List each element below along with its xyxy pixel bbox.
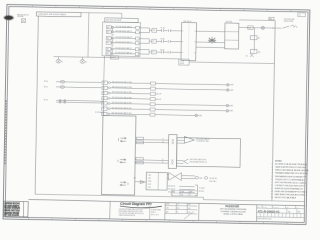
drain wires to bracket [179,186,195,192]
note item 3 [271,169,308,173]
svg-text:4 GN: 4 GN [148,184,151,186]
relay contact row K3 [106,36,149,41]
svg-text:2B4: 2B4 [102,103,105,105]
terminal strip wire id labels [162,139,164,164]
svg-text:X10: X10 [152,30,155,32]
drawing title text [220,205,248,216]
JB1 terminal list text [148,175,152,189]
number block row lines [257,208,305,218]
note item 9 [271,187,303,191]
shield node destination text [209,178,218,183]
svg-text:2 BK: 2 BK [148,178,151,180]
svg-text:U1 436 45008: U1 436 45008 [95,112,105,114]
company logo Circuit Diagram PPI [120,202,162,208]
harness wire row W25 [102,101,234,107]
cable bundle star symbol [208,37,216,44]
svg-text:1N4: 1N4 [258,52,261,54]
company address text [119,208,144,217]
shield node 500 label [195,176,208,180]
wire label boxes lower [136,157,144,164]
title block left divider [109,201,111,219]
TB1 terminal ticks [181,31,196,53]
svg-text:Z4: Z4 [299,15,301,17]
svg-text:X11: X11 [152,41,155,43]
connector CN2 box [225,23,239,49]
twisted pair crossover symbol [167,172,181,180]
aux bus inline label box [110,56,118,60]
revision mini table above title block [171,190,197,196]
svg-text:500: 500 [199,178,202,180]
svg-text:SH: SH [296,207,298,209]
lamp assembly L2 [80,57,87,64]
lamp assembly L1 [56,57,63,64]
M1 lower arrow symbol [183,159,188,164]
svg-text:TO REMOTE PNL: TO REMOTE PNL [196,141,209,143]
svg-text:BUS E1: BUS E1 [199,191,204,193]
svg-text:SH 436 08: SH 436 08 [168,186,175,188]
svg-text:REL MOD 436 45008: REL MOD 436 45008 [106,20,121,22]
note item 7 [271,181,306,185]
power feed wire from CN2 [239,27,282,29]
svg-text:11: 11 [271,194,273,196]
svg-text:9 81: 9 81 [188,212,191,214]
inline label box on power wire [248,26,253,30]
harness wire row W21 [44,79,234,86]
pair 1 junction and terminal label box [149,28,161,33]
aux bus wire to right partition [189,62,274,64]
svg-text:PNL 436 4: PNL 436 4 [209,181,216,183]
svg-text:3 WH: 3 WH [148,181,152,183]
svg-text:PASSOVER: PASSOVER [225,205,239,208]
note item 10 [271,190,308,194]
svg-text:4K7: 4K7 [258,38,261,40]
terminal board TB1 [181,22,196,60]
svg-text:R1: R1 [298,211,300,213]
harness wire row W22 [44,84,234,91]
branch device box R1 [250,36,260,40]
junction box J1 on aux bus [179,59,189,65]
terminal strip TS1 [168,134,177,168]
svg-text:L1: L1 [61,61,63,63]
relay coil link K1-K2 [111,29,113,36]
title cell divider [198,203,200,220]
drawing number text [258,208,301,214]
zone tick marks on top border [32,5,290,12]
svg-text:DT108 81236: DT108 81236 [5,215,20,217]
svg-text:45008: 45008 [180,63,184,65]
zone tick marks on bottom border [29,217,287,224]
note item 6 [271,178,305,182]
svg-text:MICROFILM REC 436 45: MICROFILM REC 436 45 [257,218,272,220]
relay contact row K5 [106,47,149,52]
left bus wire vertical [87,13,90,57]
relay module outline box [102,22,141,57]
svg-text:JS: JS [177,204,179,206]
relay coil link K3-K4 [111,39,113,46]
wires U1 to terminal strip TS1 lower [135,160,168,163]
M1 lower channel label text [190,158,207,164]
approval stamp box [4,201,29,217]
top-left key symbol box [21,19,25,23]
drawing area bottom boundary line [35,194,305,201]
svg-text:TO GND: TO GND [199,188,205,190]
svg-text:SP: SP [159,94,161,96]
M1 input arrow symbol [184,136,194,143]
signature grid labels [166,204,191,214]
relay contact row K4 [106,40,149,45]
auxiliary bus wire [54,57,179,59]
top-right corner label box [269,17,274,20]
pair 1 inline contact S1 [168,29,181,32]
svg-text:471-R-55625-01: 471-R-55625-01 [258,209,280,213]
svg-text:5 SH: 5 SH [148,187,151,189]
note item 12 [271,196,296,199]
branch vertical from power wire [253,28,255,52]
supply terminus chevrons [283,25,298,29]
microfilm tick strip [260,213,301,218]
cable label box CPS4 BUT 436 45008 CABLE [36,12,81,17]
pair 3 junction and terminal label box [149,50,161,55]
relay module header box [105,18,139,23]
inline polarity symbol [140,180,144,183]
svg-text:TL: TL [177,212,179,214]
scale column divider [149,206,151,220]
harness wire row W27 [101,111,202,117]
svg-text:2B0: 2B0 [103,82,106,84]
wires TB1 to connector CN2 [196,31,225,48]
wire U1 to junction box JB1 [135,181,146,183]
svg-text:CPS4 BUT 436 45008 CABLE: CPS4 BUT 436 45008 CABLE [38,13,67,17]
svg-text:2B1: 2B1 [103,87,106,89]
title block top line [28,199,304,205]
note item 1 [272,163,308,167]
svg-text:CHK: CHK [166,208,169,210]
svg-text:L2: L2 [85,62,87,64]
svg-text:SH 500 GD: SH 500 GD [209,178,218,180]
branch end contact symbol [246,53,254,58]
scale and size text [151,208,161,216]
svg-text:BT 41: BT 41 [44,86,48,88]
note item 4 [271,172,308,176]
svg-text:SZ: SZ [257,206,259,208]
svg-text:FROM REMOTE PNL 02: FROM REMOTE PNL 02 [190,162,207,164]
supply terminus note text [284,18,295,23]
lamp symbol on power wire [261,26,264,29]
harness wire row W23 [102,91,161,96]
junction box JB1 [146,172,167,190]
wire from label box to relay module header [81,13,122,19]
svg-text:SHT 1 OF 1: SHT 1 OF 1 [151,214,159,216]
TS1 terminal crosses [171,139,174,164]
pair 2 inline fuse F2 [160,37,167,42]
svg-text:1 RD: 1 RD [148,175,151,177]
pair 2 junction and terminal label box [149,39,161,44]
left margin revision strip (sideways text) [5,100,6,165]
relay contact row K6 [106,51,149,56]
note item 11 [271,193,305,197]
U1 interface symbol group 2 [118,159,126,164]
svg-text:10: 10 [271,191,273,193]
wires into M1 arrow [177,140,184,143]
pair 1 inline fuse F1 [161,27,168,32]
JB1 drain wire list text [168,186,175,194]
svg-text:8 81: 8 81 [188,204,191,206]
pair 3 inline fuse F3 [160,48,167,53]
shielded pair stub wires [44,99,104,104]
svg-text:DWG NO: DWG NO [273,207,278,209]
U1 interface symbol group 1 [118,137,126,142]
main harness vertical bus [103,56,104,116]
svg-text:GS: GS [246,56,248,58]
svg-text:12: 12 [271,197,273,199]
note item 8 [271,184,304,188]
relay contact row K1 [106,25,149,30]
signature grid void slash [184,211,194,219]
U1 interface symbol group 3 [120,181,128,186]
note item 5 [271,175,306,179]
binder punch hole [3,15,14,21]
control unit U1 box [102,115,136,195]
wires into M1 lower [176,161,183,164]
svg-text:X12: X12 [152,52,155,54]
svg-text:Circuit Diagram PPI: Circuit Diagram PPI [120,202,151,207]
relay contact row K2 [106,30,149,35]
svg-text:510: 510 [133,178,136,180]
svg-text:W12: W12 [248,27,251,29]
note item 2 [272,166,307,170]
wires crossover to shield node [182,176,195,179]
M1 upper channel label text [196,137,210,143]
pair 3 inline contact S3 [168,51,181,54]
svg-text:NOTES: NOTES [275,161,282,163]
number block divider [255,205,257,222]
relay coil link K5-K6 [111,50,113,52]
svg-text:BT 40: BT 40 [44,81,48,83]
svg-text:SP: SP [159,99,161,101]
wire label boxes upper [136,137,144,144]
svg-text:DWN: DWN [166,204,169,206]
svg-text:2B3: 2B3 [102,98,105,100]
bracket destination text [199,188,205,193]
sheet corner zone box [298,13,306,17]
output module M1 box [176,138,240,168]
partition vertical line from label box [35,16,38,194]
harness wire row W24 [102,96,161,101]
approval stamp dense text [4,201,23,217]
svg-text:8 81: 8 81 [181,194,184,196]
right column partition vertical [272,21,275,201]
harness wire row W26 [102,106,234,112]
svg-text:45 BUS FEED: 45 BUS FEED [284,21,295,23]
wires U1 to terminal strip TS1 upper [135,140,168,143]
pair 2 inline contact S2 [168,40,181,43]
svg-text:J1 436: J1 436 [180,60,184,62]
svg-text:2B5: 2B5 [102,108,105,110]
svg-text:01: 01 [288,211,290,213]
number block header cells [257,205,298,209]
signature grid [165,203,197,221]
top-right region boundary line [239,19,275,22]
svg-text:REV: REV [172,191,175,193]
svg-text:8 81: 8 81 [188,208,191,210]
svg-text:2B2: 2B2 [102,93,105,95]
branch device box D1 [250,49,260,53]
top-left reference note text [17,14,28,18]
ganging bracket [195,185,198,195]
svg-text:BT 43: BT 43 [44,99,48,101]
